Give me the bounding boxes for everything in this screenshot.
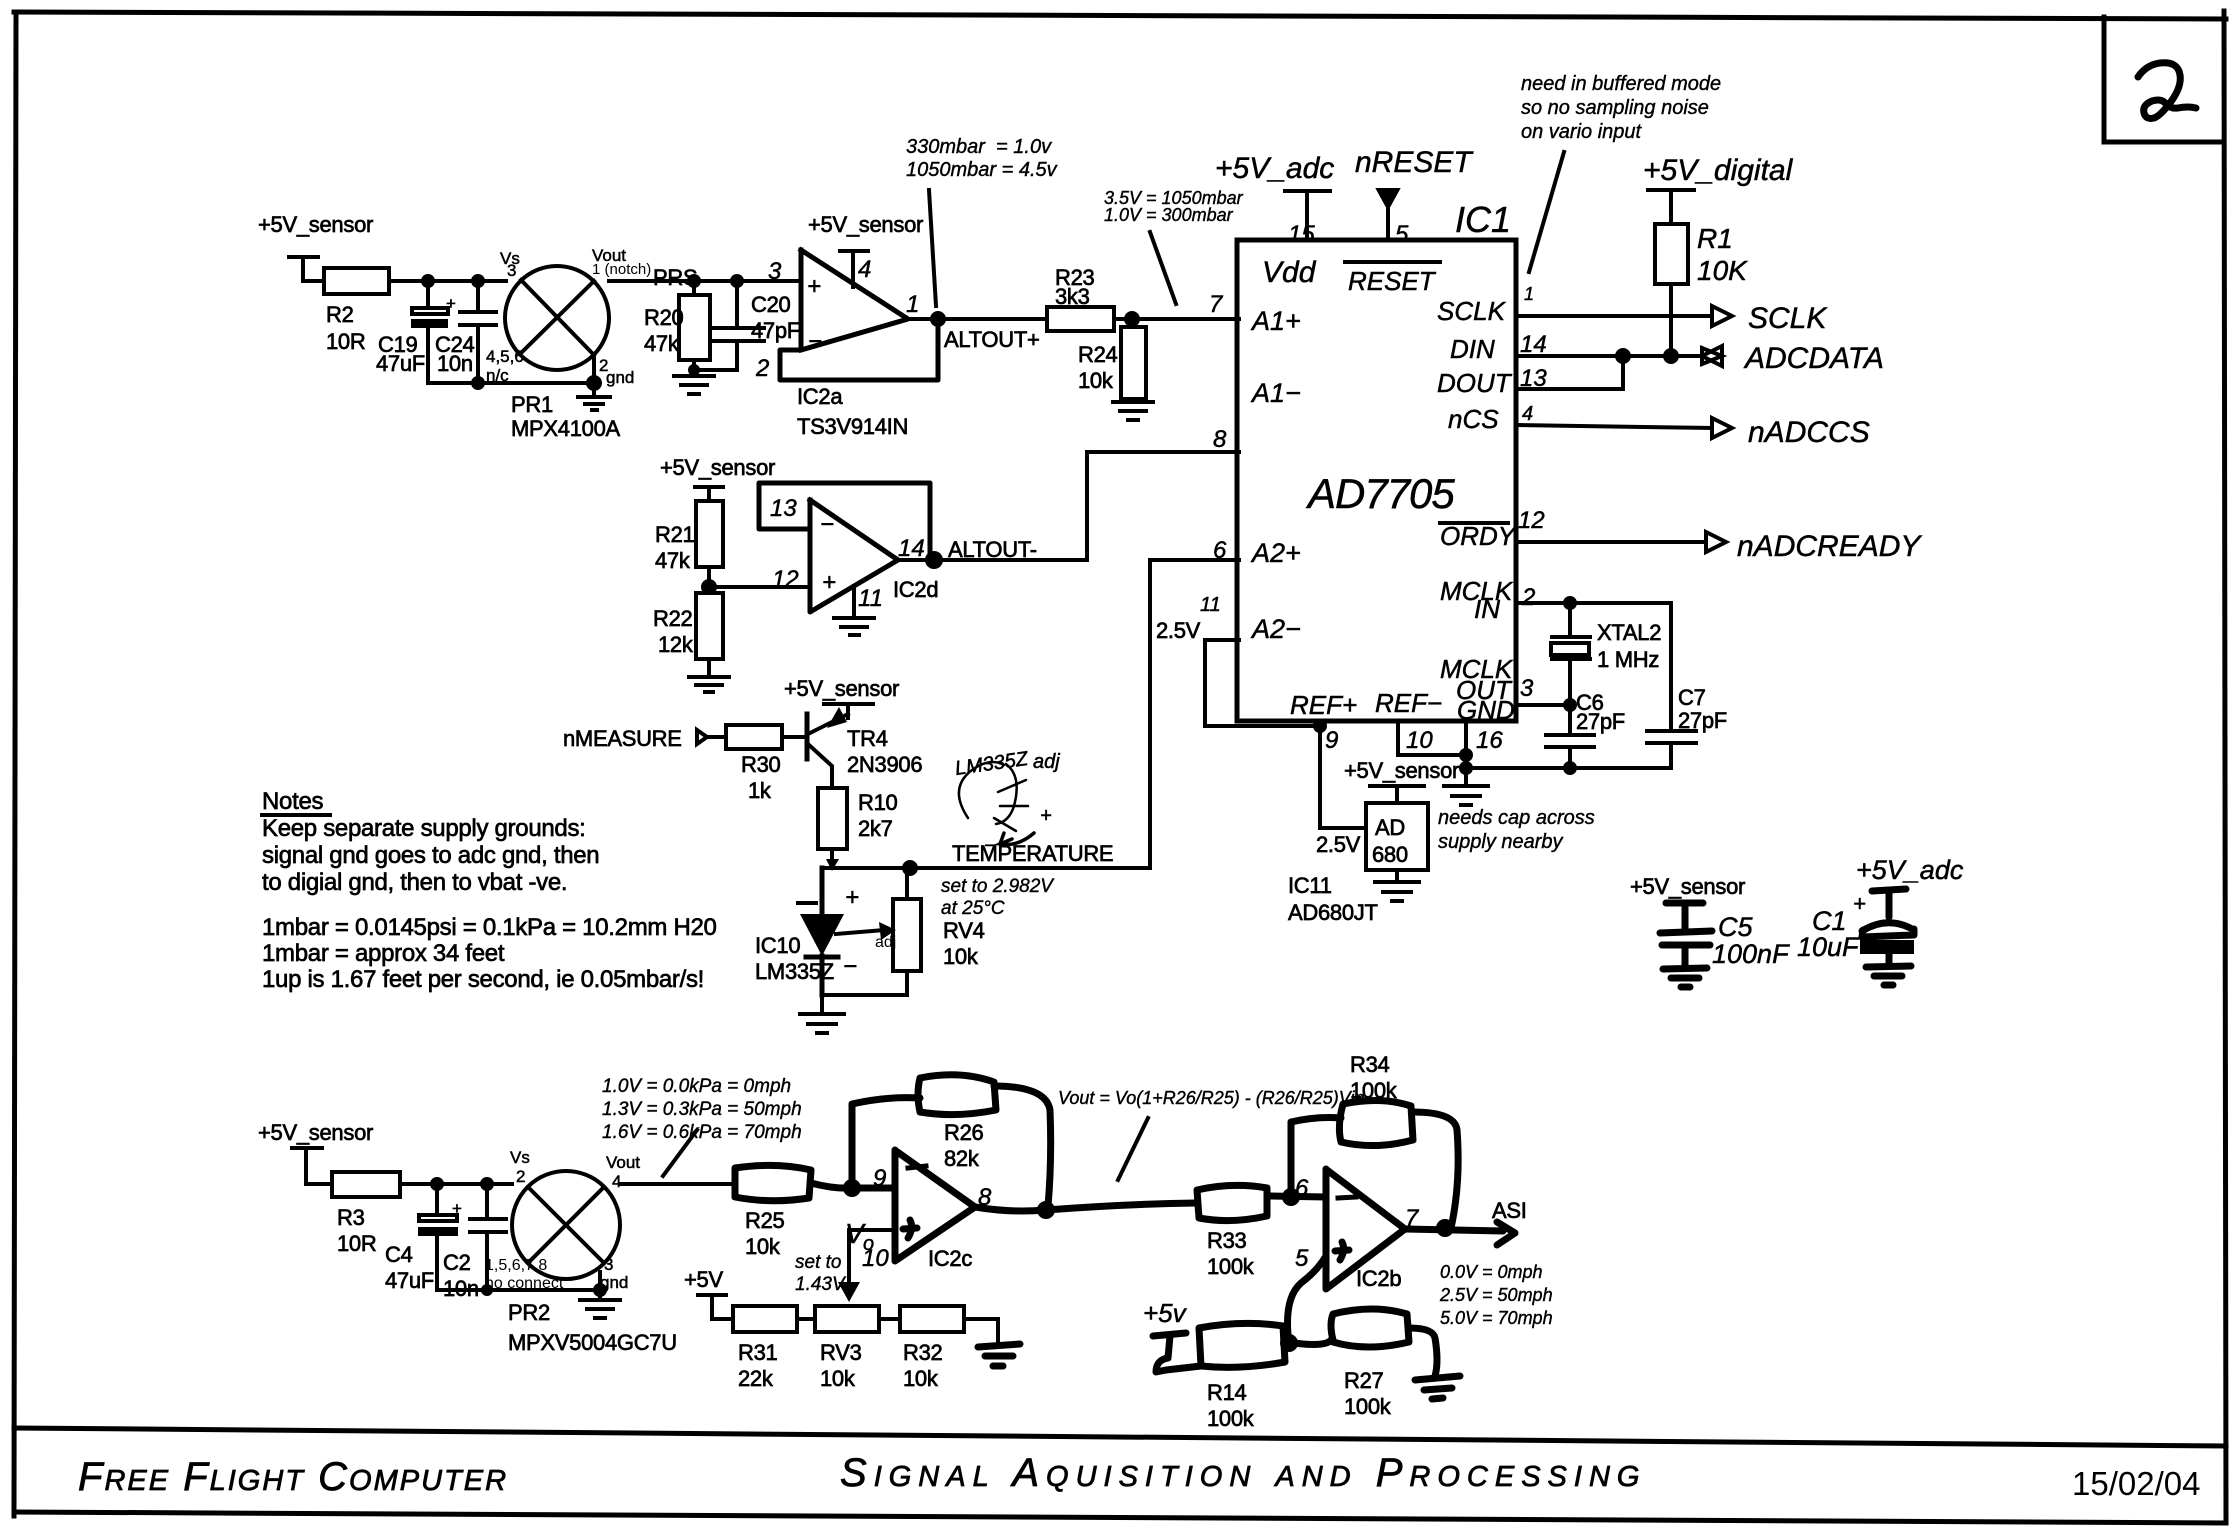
wire Vo to RV3 wiper	[849, 1230, 895, 1285]
crystal XTAL2	[1563, 596, 1577, 610]
svg-text:+: +	[1040, 805, 1052, 827]
svg-text:15: 15	[1288, 221, 1315, 248]
svg-text:6: 6	[1295, 1175, 1309, 1202]
svg-text:supply nearby: supply nearby	[1438, 831, 1564, 853]
ground rail for C6 C7	[1466, 766, 1671, 770]
resistor R27 (hand drawn)	[1331, 1309, 1409, 1347]
op-amp IC2c (hand drawn)	[895, 1150, 975, 1261]
svg-text:R34: R34	[1350, 1052, 1390, 1077]
svg-text:5: 5	[1395, 221, 1409, 248]
potentiometer RV3	[797, 1317, 815, 1321]
resistor R3	[332, 1172, 400, 1197]
svg-text:R30: R30	[741, 752, 781, 777]
svg-text:C5: C5	[1718, 912, 1753, 942]
svg-text:27pF: 27pF	[1678, 708, 1727, 733]
svg-text:R22: R22	[653, 606, 693, 631]
op-amp IC2d	[759, 483, 930, 612]
svg-text:2: 2	[1521, 584, 1535, 611]
svg-text:+5V_sensor: +5V_sensor	[660, 455, 775, 480]
wire bottom rail PR2	[437, 1288, 600, 1292]
svg-text:1k: 1k	[748, 778, 772, 803]
svg-text:680: 680	[1372, 842, 1408, 867]
ground under C5	[1663, 968, 1707, 987]
ground after R32	[964, 1319, 998, 1344]
node junction REF+ pin9	[1313, 719, 1327, 733]
node junction C4	[430, 1177, 444, 1191]
svg-text:TS3V914IN: TS3V914IN	[797, 414, 908, 439]
svg-text:47uF: 47uF	[376, 351, 425, 376]
svg-text:9: 9	[1325, 727, 1338, 754]
svg-text:+5V_digital: +5V_digital	[1643, 154, 1794, 187]
svg-text:+: +	[1853, 891, 1866, 916]
svg-text:1 MHz: 1 MHz	[1597, 647, 1659, 672]
resistor R33 (hand drawn)	[1197, 1185, 1267, 1220]
svg-text:10uF: 10uF	[1797, 932, 1860, 962]
adj arrow LM335 to RV4	[836, 930, 884, 934]
svg-text:2N3906: 2N3906	[847, 752, 922, 777]
svg-text:ADCDATA: ADCDATA	[1743, 342, 1884, 375]
svg-text:10R: 10R	[326, 329, 365, 354]
svg-text:1.43V: 1.43V	[795, 1274, 847, 1295]
svg-text:PR2: PR2	[508, 1300, 550, 1325]
node junction output IC2a	[930, 311, 946, 327]
svg-text:set to 2.982V: set to 2.982V	[941, 876, 1055, 897]
svg-text:1.6V = 0.6kPa = 70mph: 1.6V = 0.6kPa = 70mph	[602, 1122, 802, 1143]
svg-text:A2+: A2+	[1250, 538, 1301, 568]
svg-text:nCS: nCS	[1448, 404, 1499, 434]
feedback resistor R34 (hand drawn)	[1291, 1118, 1341, 1198]
svg-text:+5V_sensor: +5V_sensor	[1344, 758, 1459, 783]
svg-text:IC2b: IC2b	[1356, 1266, 1401, 1291]
svg-text:ASI: ASI	[1492, 1198, 1527, 1223]
svg-text:1: 1	[1524, 284, 1534, 304]
svg-text:12: 12	[1518, 507, 1545, 534]
ground under R22	[689, 659, 729, 692]
wire leader to note	[1529, 152, 1564, 272]
node junction IC2d output	[925, 551, 943, 569]
svg-text:TR4: TR4	[847, 726, 888, 751]
resistor R24	[1121, 327, 1146, 399]
svg-text:R14: R14	[1207, 1380, 1247, 1405]
capacitor C6	[1563, 698, 1577, 712]
node junction divider	[701, 579, 717, 595]
op-amp IC2a	[780, 250, 938, 380]
svg-text:3: 3	[604, 1255, 613, 1274]
port ASI	[1497, 1222, 1515, 1245]
svg-text:+5V_sensor: +5V_sensor	[1630, 874, 1745, 899]
svg-text:needs cap across: needs cap across	[1438, 807, 1595, 829]
svg-text:need in buffered mode: need in buffered mode	[1521, 73, 1721, 95]
svg-text:Vout: Vout	[606, 1153, 640, 1172]
svg-text:47pF: 47pF	[751, 318, 800, 343]
svg-text:R2: R2	[326, 302, 354, 327]
svg-text:nADCCS: nADCCS	[1748, 416, 1870, 449]
svg-text:+5V_sensor: +5V_sensor	[258, 1120, 373, 1145]
svg-text:SCLK: SCLK	[1437, 296, 1507, 326]
transistor Q TR4 2N3906 PNP	[805, 714, 810, 759]
ground under LM335	[800, 995, 844, 1033]
svg-text:4: 4	[1522, 403, 1533, 425]
ground under IC2d	[834, 586, 874, 635]
ground under R20	[688, 364, 700, 376]
svg-text:4: 4	[612, 1172, 621, 1191]
svg-text:11: 11	[1200, 594, 1221, 616]
capacitor C20	[694, 281, 764, 370]
svg-text:47k: 47k	[655, 548, 691, 573]
svg-text:+5V_adc: +5V_adc	[1856, 855, 1964, 885]
ground under C1	[1866, 966, 1911, 985]
svg-text:47k: 47k	[644, 331, 680, 356]
svg-text:IN: IN	[1474, 594, 1500, 624]
svg-text:+5V: +5V	[684, 1267, 723, 1292]
svg-text:16: 16	[1476, 727, 1503, 754]
svg-text:47uF: 47uF	[385, 1268, 434, 1293]
svg-text:adj: adj	[1033, 751, 1060, 773]
resistor R31	[733, 1306, 797, 1332]
svg-text:4,5,6: 4,5,6	[486, 347, 524, 366]
svg-text:10: 10	[1406, 727, 1433, 754]
svg-text:10R: 10R	[337, 1231, 376, 1256]
pressure sensor PR1	[505, 266, 609, 370]
svg-text:8: 8	[1213, 426, 1227, 453]
resistor R20	[692, 281, 696, 372]
svg-text:+: +	[446, 294, 456, 313]
wire R2 to PR1	[389, 279, 506, 283]
svg-text:4: 4	[858, 256, 871, 283]
wire R27 to ground	[1409, 1328, 1437, 1376]
wire R10 to LM335 / temperature node	[830, 849, 834, 864]
resistor R25 (hand drawn)	[735, 1165, 811, 1200]
svg-text:100k: 100k	[1344, 1394, 1392, 1419]
svg-text:5: 5	[1295, 1245, 1309, 1272]
title band bottom line	[14, 1512, 2226, 1523]
svg-text:Vout = Vo(1+R26/R25) - (R26/R2: Vout = Vo(1+R26/R25) - (R26/R25)Vin	[1058, 1088, 1365, 1108]
svg-text:+5V_sensor: +5V_sensor	[784, 676, 899, 701]
node junction C19	[421, 274, 435, 288]
svg-text:DOUT: DOUT	[1437, 368, 1513, 398]
wire R23 to IC1 pin7	[1114, 317, 1239, 321]
svg-text:RESET: RESET	[1348, 266, 1437, 296]
svg-text:10K: 10K	[1697, 255, 1748, 286]
svg-text:+: +	[822, 569, 836, 596]
resistor R21	[696, 501, 723, 567]
resistor R32	[879, 1317, 900, 1321]
node junction IC2c input	[843, 1179, 861, 1197]
svg-text:10k: 10k	[1078, 368, 1114, 393]
wire R33 to IC2b	[1267, 1196, 1326, 1197]
svg-text:82k: 82k	[944, 1146, 980, 1171]
wire IC2a output	[908, 317, 1047, 321]
svg-text:1.3V = 0.3kPa = 50mph: 1.3V = 0.3kPa = 50mph	[602, 1099, 802, 1120]
svg-text:R25: R25	[745, 1208, 785, 1233]
title band top line	[14, 1428, 2226, 1446]
temp sensor IC10 LM335Z	[806, 868, 838, 995]
svg-text:14: 14	[898, 535, 925, 562]
svg-text:1: 1	[906, 291, 919, 318]
ground under PR2	[593, 1283, 607, 1297]
svg-text:3k3: 3k3	[1055, 284, 1090, 309]
capacitor C7	[1647, 603, 1696, 768]
wire divider to IC2d	[709, 585, 810, 589]
svg-text:2.5V = 50mph: 2.5V = 50mph	[1439, 1285, 1553, 1305]
svg-text:+: +	[452, 1199, 462, 1218]
resistor R2	[324, 268, 389, 294]
svg-text:C4: C4	[385, 1242, 413, 1267]
capacitor C2	[470, 1184, 506, 1290]
svg-text:1 (notch): 1 (notch)	[592, 261, 651, 278]
capacitor C24	[460, 281, 496, 383]
svg-text:3: 3	[768, 258, 782, 285]
svg-text:R24: R24	[1078, 342, 1118, 367]
svg-text:at 25°C: at 25°C	[941, 898, 1005, 919]
svg-text:LM335Z: LM335Z	[755, 959, 834, 984]
svg-text:100k: 100k	[1207, 1406, 1255, 1431]
svg-text:IC10: IC10	[755, 933, 800, 958]
resistor R23	[1047, 307, 1114, 331]
svg-text:TEMPERATURE: TEMPERATURE	[952, 841, 1113, 866]
svg-text:R27: R27	[1344, 1368, 1384, 1393]
svg-text:A2−: A2−	[1250, 614, 1301, 644]
svg-text:RV3: RV3	[820, 1340, 862, 1365]
svg-text:nADCREADY: nADCREADY	[1737, 530, 1922, 563]
svg-text:100nF: 100nF	[1712, 939, 1790, 969]
node junction C20	[730, 274, 744, 288]
svg-text:Vs: Vs	[510, 1148, 530, 1167]
wire R14 to junction and pin5	[1285, 1340, 1331, 1345]
svg-text:Keep separate supply grounds:: Keep separate supply grounds:	[262, 815, 586, 842]
svg-text:5.0V = 70mph: 5.0V = 70mph	[1440, 1308, 1553, 1328]
svg-text:27pF: 27pF	[1576, 709, 1625, 734]
svg-text:nRESET: nRESET	[1355, 146, 1474, 179]
svg-text:R20: R20	[644, 305, 684, 330]
ADCDATA bidirectional port	[1702, 346, 1722, 366]
svg-text:12k: 12k	[658, 632, 694, 657]
svg-text:10k: 10k	[745, 1234, 781, 1259]
svg-text:−: −	[984, 835, 996, 857]
svg-text:100k: 100k	[1350, 1078, 1398, 1103]
svg-text:0.0V = 0mph: 0.0V = 0mph	[1440, 1262, 1543, 1282]
svg-text:R1: R1	[1697, 223, 1733, 254]
svg-text:R32: R32	[903, 1340, 943, 1365]
svg-text:Vdd: Vdd	[1262, 256, 1317, 289]
resistor R30	[726, 725, 782, 749]
svg-text:A1−: A1−	[1250, 378, 1301, 408]
wire 2.5V net pin11 to REF+ and AD680	[1205, 640, 1366, 828]
svg-text:2.5V: 2.5V	[1316, 832, 1361, 857]
svg-text:R33: R33	[1207, 1228, 1247, 1253]
svg-text:PR1: PR1	[511, 392, 553, 417]
pressure sensor PR2	[512, 1171, 620, 1279]
svg-text:R21: R21	[655, 522, 695, 547]
svg-text:A1+: A1+	[1250, 306, 1301, 336]
wire R3 to PR2	[400, 1182, 512, 1186]
svg-text:RV4: RV4	[943, 918, 985, 943]
svg-text:15/02/04: 15/02/04	[2072, 1465, 2200, 1502]
svg-text:1,5,6,7,8: 1,5,6,7,8	[485, 1257, 547, 1274]
svg-text:13: 13	[770, 495, 797, 522]
svg-text:100k: 100k	[1207, 1254, 1255, 1279]
svg-text:10k: 10k	[820, 1366, 856, 1391]
node junction R20	[687, 274, 701, 288]
svg-text:IC2c: IC2c	[928, 1246, 972, 1271]
svg-text:C20: C20	[751, 292, 791, 317]
svg-text:10n: 10n	[437, 351, 473, 376]
svg-text:set to: set to	[795, 1252, 841, 1273]
svg-text:−: −	[820, 511, 834, 538]
svg-text:MPX4100A: MPX4100A	[511, 416, 621, 441]
wire IC2c out to R33	[1046, 1203, 1196, 1210]
svg-text:12: 12	[772, 566, 799, 593]
node junction C2	[480, 1177, 494, 1191]
svg-text:+5V_sensor: +5V_sensor	[808, 212, 923, 237]
svg-text:signal gnd goes to adc gnd, th: signal gnd goes to adc gnd, then	[262, 842, 599, 869]
svg-text:AD7705: AD7705	[1305, 470, 1455, 517]
svg-text:gnd: gnd	[606, 368, 634, 387]
svg-text:Notes: Notes	[262, 788, 323, 815]
capacitor C1 electrolytic (hand drawn)	[1862, 923, 1914, 937]
svg-text:AD680JT: AD680JT	[1288, 900, 1378, 925]
feedback resistor R26 (hand drawn)	[852, 1098, 920, 1188]
wire temperature to IC1 pin 6	[822, 560, 1239, 868]
svg-text:R3: R3	[337, 1205, 365, 1230]
resistor R22	[696, 593, 723, 659]
potentiometer RV4	[893, 899, 921, 971]
svg-text:nMEASURE: nMEASURE	[563, 726, 682, 751]
svg-text:330mbar = 1.0v: 330mbar = 1.0v	[906, 136, 1052, 158]
svg-text:11: 11	[858, 585, 883, 612]
svg-text:+: +	[845, 884, 859, 911]
svg-text:2k7: 2k7	[858, 816, 893, 841]
svg-text:XTAL2: XTAL2	[1597, 620, 1661, 645]
svg-text:+5v: +5v	[1143, 1298, 1188, 1328]
svg-text:+5V_adc: +5V_adc	[1215, 152, 1334, 185]
capacitor C5 (hand drawn)	[1660, 931, 1712, 968]
svg-text:22k: 22k	[738, 1366, 774, 1391]
wire IC2c output	[975, 1207, 1045, 1211]
ground under PR1	[586, 375, 602, 391]
svg-text:R10: R10	[858, 790, 898, 815]
svg-text:9: 9	[873, 1165, 886, 1192]
svg-text:REF−: REF−	[1375, 688, 1442, 718]
svg-text:SCLK: SCLK	[1748, 302, 1828, 335]
svg-text:IC2d: IC2d	[893, 577, 938, 602]
svg-text:2: 2	[516, 1167, 525, 1186]
svg-text:1up is 1.67 feet per second, i: 1up is 1.67 feet per second, ie 0.05mbar…	[262, 966, 704, 993]
svg-text:1.0V = 0.0kPa = 0mph: 1.0V = 0.0kPa = 0mph	[602, 1076, 791, 1097]
svg-text:10k: 10k	[943, 944, 979, 969]
svg-text:ORDY: ORDY	[1440, 521, 1517, 551]
wire ALTOUT- to IC1 pin8	[898, 452, 1239, 560]
node junction R24	[1124, 311, 1140, 327]
svg-text:1mbar = approx 34 feet: 1mbar = approx 34 feet	[262, 940, 505, 967]
svg-text:IC2a: IC2a	[797, 384, 843, 409]
svg-text:+5V_sensor: +5V_sensor	[258, 212, 373, 237]
svg-text:1050mbar = 4.5v: 1050mbar = 4.5v	[906, 159, 1058, 181]
svg-text:1mbar = 0.0145psi = 0.1kPa = 1: 1mbar = 0.0145psi = 0.1kPa = 10.2mm H20	[262, 914, 717, 941]
svg-text:1.0V = 300mbar: 1.0V = 300mbar	[1104, 205, 1234, 225]
wire PR2 to R25	[620, 1182, 733, 1186]
doodle sketch LM335Z package	[959, 762, 1034, 845]
page number box	[2104, 17, 2224, 142]
svg-text:C7: C7	[1678, 685, 1706, 710]
wire IC2b output to ASI	[1405, 1229, 1503, 1231]
resistor R14 (hand drawn)	[1199, 1323, 1285, 1367]
svg-text:3: 3	[1520, 675, 1534, 702]
svg-text:2: 2	[755, 355, 769, 382]
svg-text:−: −	[808, 328, 822, 355]
wire PR1 to IC2a	[609, 279, 801, 283]
border frame outer	[14, 12, 2226, 19]
capacitor C19 (electrolytic)	[426, 281, 430, 383]
ground symbol pin16	[1444, 768, 1488, 805]
svg-text:2.5V: 2.5V	[1156, 618, 1201, 643]
wire R30 to TR4 base	[782, 735, 805, 739]
svg-text:+: +	[807, 273, 821, 300]
IC U1 AD7705 body	[1237, 240, 1516, 721]
svg-text:10k: 10k	[903, 1366, 939, 1391]
node junction C24	[471, 274, 485, 288]
svg-text:DIN: DIN	[1450, 334, 1495, 364]
svg-text:R26: R26	[944, 1120, 984, 1145]
svg-text:IC1: IC1	[1455, 199, 1511, 240]
svg-text:C2: C2	[443, 1250, 471, 1275]
ground under R24	[1113, 399, 1153, 420]
wire R25 to IC2c	[811, 1183, 895, 1188]
svg-text:14: 14	[1520, 331, 1547, 358]
wire R21 to R22	[707, 567, 711, 593]
svg-text:3: 3	[507, 261, 516, 280]
svg-text:so no sampling noise: so no sampling noise	[1521, 97, 1709, 119]
capacitor C4 (electrolytic)	[435, 1184, 439, 1290]
svg-text:MPXV5004GC7U: MPXV5004GC7U	[508, 1330, 677, 1355]
svg-text:REF+: REF+	[1290, 690, 1357, 720]
svg-text:on vario input: on vario input	[1521, 121, 1643, 143]
svg-text:AD: AD	[1375, 815, 1405, 840]
op-amp IC2b (hand drawn)	[1326, 1169, 1405, 1289]
voltage reference U IC11 AD680	[1366, 803, 1428, 870]
svg-text:7: 7	[1209, 291, 1224, 318]
svg-text:to digial gnd, then to vbat -v: to digial gnd, then to vbat -ve.	[262, 869, 567, 896]
svg-text:ALTOUT+: ALTOUT+	[944, 327, 1040, 352]
svg-text:o: o	[863, 1233, 874, 1255]
resistor R10	[818, 788, 847, 849]
svg-text:R31: R31	[738, 1340, 778, 1365]
svg-text:−: −	[843, 953, 857, 980]
page number 2 handwritten	[2138, 63, 2196, 119]
svg-text:IC11: IC11	[1288, 873, 1332, 898]
wire bottom rail	[428, 381, 594, 385]
